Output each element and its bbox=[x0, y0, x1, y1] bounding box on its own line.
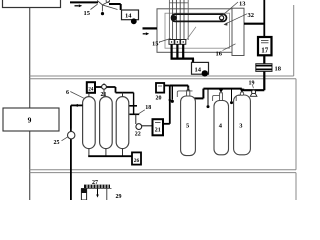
svg-text:26: 26 bbox=[134, 158, 140, 164]
svg-text:21: 21 bbox=[155, 128, 161, 134]
svg-text:32: 32 bbox=[248, 12, 255, 19]
svg-text:18: 18 bbox=[145, 105, 151, 111]
svg-text:6: 6 bbox=[66, 90, 69, 96]
svg-text:25: 25 bbox=[54, 140, 60, 146]
svg-text:17: 17 bbox=[261, 47, 269, 55]
svg-text:16: 16 bbox=[216, 51, 223, 58]
svg-text:9: 9 bbox=[28, 116, 32, 125]
svg-text:22: 22 bbox=[135, 132, 141, 138]
svg-text:20: 20 bbox=[156, 96, 162, 102]
svg-text:24: 24 bbox=[88, 87, 94, 92]
svg-text:15: 15 bbox=[84, 10, 91, 17]
svg-text:18: 18 bbox=[275, 66, 282, 73]
svg-text:14: 14 bbox=[125, 13, 132, 20]
svg-text:19: 19 bbox=[249, 81, 255, 87]
svg-text:14: 14 bbox=[195, 67, 202, 74]
svg-text:29: 29 bbox=[116, 194, 122, 200]
svg-text:15': 15' bbox=[152, 41, 161, 48]
svg-text:13: 13 bbox=[239, 1, 246, 8]
